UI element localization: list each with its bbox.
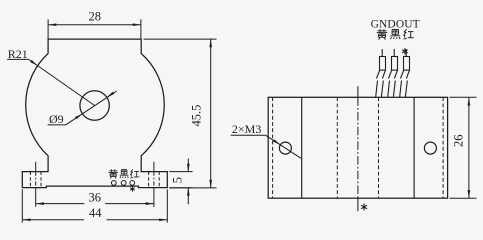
svg-text:36: 36 (88, 191, 101, 205)
svg-text:26: 26 (451, 135, 465, 148)
svg-text:5: 5 (170, 177, 184, 183)
svg-text:45.5: 45.5 (189, 105, 203, 127)
svg-text:28: 28 (88, 10, 101, 24)
svg-text:44: 44 (89, 206, 102, 220)
svg-text:GNDOUT: GNDOUT (371, 19, 420, 31)
svg-text:R21: R21 (8, 47, 28, 61)
svg-text:2×M3: 2×M3 (232, 122, 261, 136)
svg-text:Ø9: Ø9 (49, 112, 64, 126)
